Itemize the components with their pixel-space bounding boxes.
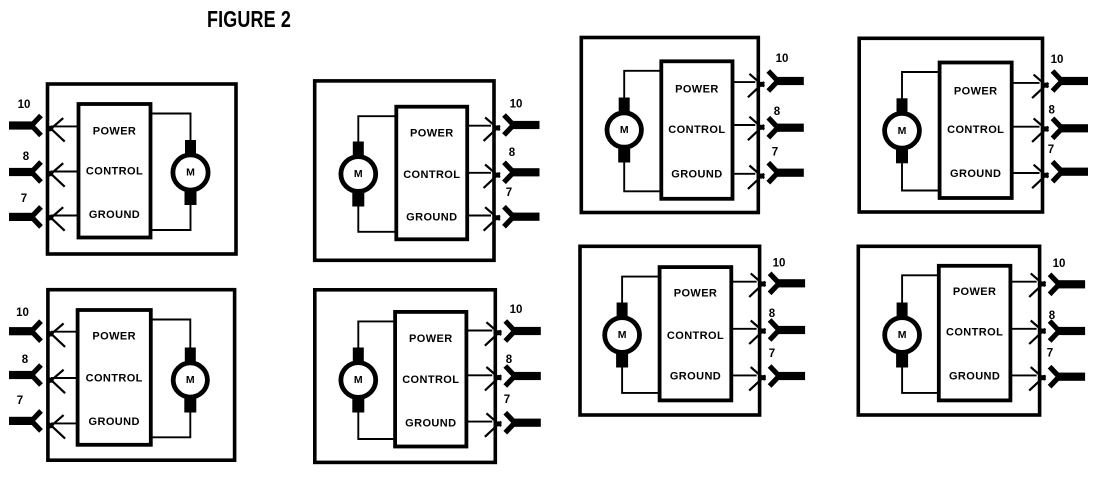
module 8 interface box (939, 266, 1011, 401)
svg-text:7: 7 (772, 147, 778, 159)
svg-text:POWER: POWER (674, 287, 718, 299)
svg-text:CONTROL: CONTROL (86, 166, 143, 178)
module 6 interface box (395, 312, 466, 447)
wire POWER pin module 5 (51, 331, 78, 333)
module 3 enclosure (581, 38, 758, 213)
module 1 enclosure (48, 84, 237, 254)
arrowhead CONTROL module 8 (1031, 321, 1046, 334)
connector pin 10 module 4 (1060, 77, 1088, 85)
wire CONTROL pin module 2 (467, 172, 491, 174)
svg-text:GROUND: GROUND (405, 418, 456, 430)
motor M module 1 (173, 140, 208, 205)
svg-text:10: 10 (1053, 258, 1066, 270)
wire CONTROL pin module 6 (466, 374, 492, 376)
wire GROUND pin module 7 (731, 374, 756, 376)
wire motor bottom module 3 (624, 160, 661, 191)
wire motor bottom module 4 (902, 161, 940, 191)
motor M module 6 (341, 348, 376, 413)
arrowhead CONTROL module 1 (48, 163, 63, 176)
wire GROUND pin module 6 (466, 421, 492, 423)
wire motor bottom module 1 (151, 203, 191, 231)
wire motor top module 1 (151, 114, 191, 143)
svg-text:8: 8 (22, 354, 29, 366)
connector pin 7 module 3 (776, 169, 804, 177)
svg-text:8: 8 (1049, 310, 1056, 322)
wire motor bottom module 2 (358, 204, 396, 232)
module 4 enclosure (859, 38, 1042, 212)
connector pin 7 module 2 (512, 213, 540, 221)
arrowhead POWER module 1 (48, 118, 63, 131)
svg-text:CONTROL: CONTROL (947, 124, 1004, 136)
svg-text:CONTROL: CONTROL (403, 169, 460, 181)
svg-text:POWER: POWER (410, 128, 454, 140)
arrowhead POWER module 8 (1031, 273, 1046, 286)
svg-text:M: M (354, 374, 363, 386)
svg-text:CONTROL: CONTROL (402, 374, 459, 386)
wire motor bottom module 7 (622, 365, 660, 393)
connector pin 8 module 1 (9, 168, 34, 176)
arrowhead CONTROL module 2 (485, 165, 500, 178)
wire motor bottom module 6 (358, 410, 395, 439)
wire motor bottom module 5 (151, 410, 191, 437)
svg-text:7: 7 (21, 193, 27, 205)
svg-text:CONTROL: CONTROL (86, 373, 143, 385)
svg-text:POWER: POWER (409, 333, 453, 345)
arrowhead CONTROL module 5 (49, 370, 64, 383)
svg-text:GROUND: GROUND (949, 370, 1000, 382)
connector pin 7 module 8 (1057, 373, 1085, 381)
svg-text:10: 10 (510, 99, 523, 111)
connector pin 8 module 5 (9, 371, 34, 379)
svg-text:10: 10 (773, 257, 786, 269)
arrowhead POWER module 3 (749, 74, 764, 87)
wire POWER pin module 1 (51, 125, 79, 127)
module 3 interface box (661, 61, 732, 199)
connector pin 10 module 2 (512, 121, 540, 129)
arrowhead GROUND module 5 (49, 415, 64, 428)
svg-text:POWER: POWER (92, 330, 136, 342)
connector pin 10 module 1 (9, 121, 34, 129)
wire GROUND pin module 1 (51, 215, 79, 217)
svg-text:M: M (186, 167, 195, 179)
svg-text:M: M (898, 125, 907, 137)
arrowhead CONTROL module 4 (1034, 118, 1049, 131)
module 7 enclosure (580, 246, 760, 415)
svg-text:10: 10 (1051, 54, 1064, 66)
module 8 enclosure (858, 246, 1039, 415)
svg-text:CONTROL: CONTROL (668, 124, 725, 136)
wire CONTROL pin module 4 (1012, 126, 1040, 128)
svg-text:10: 10 (776, 53, 789, 65)
svg-text:CONTROL: CONTROL (667, 330, 724, 342)
svg-text:8: 8 (509, 147, 516, 159)
connector pin 7 module 7 (777, 372, 805, 380)
svg-text:8: 8 (506, 354, 513, 366)
connector pin 8 module 4 (1060, 124, 1088, 132)
arrowhead GROUND module 7 (751, 367, 766, 380)
svg-text:GROUND: GROUND (670, 370, 721, 382)
wire POWER pin module 6 (466, 330, 492, 332)
svg-text:M: M (620, 124, 629, 136)
wire motor top module 5 (151, 320, 191, 351)
arrowhead GROUND module 2 (485, 207, 500, 220)
svg-text:GROUND: GROUND (89, 209, 140, 221)
wire motor bottom module 8 (902, 365, 939, 393)
wire motor top module 4 (902, 72, 940, 101)
motor M module 7 (605, 303, 640, 368)
connector pin 10 module 5 (9, 327, 34, 335)
wire GROUND pin module 5 (51, 422, 78, 424)
svg-text:7: 7 (1048, 144, 1054, 156)
connector pin 7 module 5 (9, 417, 34, 425)
svg-text:M: M (354, 168, 363, 180)
motor M module 2 (341, 142, 376, 207)
wire motor top module 7 (622, 277, 660, 305)
wire GROUND pin module 2 (467, 215, 491, 217)
svg-text:POWER: POWER (675, 84, 719, 96)
connector pin 8 module 6 (513, 372, 541, 380)
svg-text:M: M (898, 329, 907, 341)
motor M module 8 (885, 303, 920, 368)
svg-text:7: 7 (506, 187, 512, 199)
svg-text:10: 10 (16, 307, 29, 319)
svg-text:POWER: POWER (93, 125, 137, 137)
svg-text:8: 8 (774, 106, 781, 118)
wire POWER pin module 2 (467, 125, 491, 127)
svg-text:7: 7 (504, 394, 510, 406)
arrowhead CONTROL module 6 (486, 367, 501, 380)
wire POWER pin module 7 (731, 281, 756, 283)
arrowhead CONTROL module 3 (749, 117, 764, 130)
arrowhead GROUND module 8 (1031, 367, 1046, 380)
module 5 enclosure (48, 290, 235, 461)
svg-text:GROUND: GROUND (406, 212, 457, 224)
arrowhead POWER module 4 (1034, 75, 1049, 88)
svg-text:8: 8 (1048, 105, 1055, 117)
connector pin 10 module 3 (776, 77, 804, 85)
wire motor top module 6 (358, 321, 395, 350)
svg-text:POWER: POWER (954, 86, 998, 98)
svg-text:7: 7 (1047, 347, 1053, 359)
motor M module 3 (607, 98, 641, 163)
arrowhead POWER module 2 (485, 117, 500, 130)
module 5 interface box (78, 310, 151, 445)
svg-text:M: M (618, 329, 627, 341)
wire CONTROL pin module 7 (731, 328, 756, 330)
arrowhead GROUND module 3 (749, 166, 764, 179)
svg-text:10: 10 (18, 99, 31, 111)
svg-text:GROUND: GROUND (671, 169, 722, 181)
wire CONTROL pin module 3 (733, 124, 756, 126)
svg-text:7: 7 (769, 348, 775, 360)
arrowhead CONTROL module 7 (751, 321, 766, 334)
arrowhead POWER module 6 (486, 322, 501, 335)
connector pin 7 module 1 (9, 213, 34, 221)
svg-text:10: 10 (510, 304, 523, 316)
connector pin 8 module 3 (776, 124, 804, 132)
module 2 enclosure (315, 81, 494, 260)
arrowhead POWER module 5 (49, 323, 64, 336)
wire POWER pin module 3 (733, 81, 756, 83)
svg-text:CONTROL: CONTROL (946, 327, 1003, 339)
svg-text:POWER: POWER (953, 286, 997, 298)
connector pin 8 module 8 (1057, 327, 1085, 335)
svg-text:7: 7 (17, 395, 23, 407)
svg-text:FIGURE 2: FIGURE 2 (207, 6, 291, 32)
connector pin 10 module 6 (513, 327, 541, 335)
connector pin 7 module 4 (1060, 168, 1088, 176)
connector pin 8 module 2 (512, 168, 540, 176)
module 4 interface box (940, 63, 1012, 199)
wire POWER pin module 8 (1010, 281, 1036, 283)
connector pin 10 module 8 (1057, 280, 1085, 288)
arrowhead GROUND module 1 (48, 207, 63, 220)
arrowhead GROUND module 4 (1034, 165, 1049, 178)
svg-text:8: 8 (769, 308, 776, 320)
wire motor top module 3 (624, 71, 661, 100)
module 2 interface box (396, 107, 467, 240)
wire CONTROL pin module 5 (51, 377, 78, 379)
arrowhead POWER module 7 (751, 273, 766, 286)
wire motor top module 8 (902, 275, 939, 305)
connector pin 10 module 7 (777, 279, 805, 287)
connector pin 8 module 7 (777, 326, 805, 334)
wire CONTROL pin module 1 (51, 171, 79, 173)
module 7 interface box (660, 267, 732, 400)
motor M module 4 (885, 98, 920, 163)
module 6 enclosure (315, 290, 496, 463)
svg-text:8: 8 (23, 151, 30, 163)
svg-text:GROUND: GROUND (950, 168, 1001, 180)
wire CONTROL pin module 8 (1010, 328, 1036, 330)
motor M module 5 (173, 348, 207, 413)
svg-text:GROUND: GROUND (89, 416, 140, 428)
connector pin 7 module 6 (513, 419, 541, 427)
wire GROUND pin module 8 (1010, 374, 1036, 376)
wire GROUND pin module 4 (1012, 172, 1040, 174)
wire GROUND pin module 3 (733, 173, 756, 175)
module 1 interface box (79, 104, 151, 238)
svg-text:M: M (186, 374, 195, 386)
wire motor top module 2 (358, 116, 396, 144)
arrowhead GROUND module 6 (486, 413, 501, 426)
wire POWER pin module 4 (1012, 82, 1040, 84)
